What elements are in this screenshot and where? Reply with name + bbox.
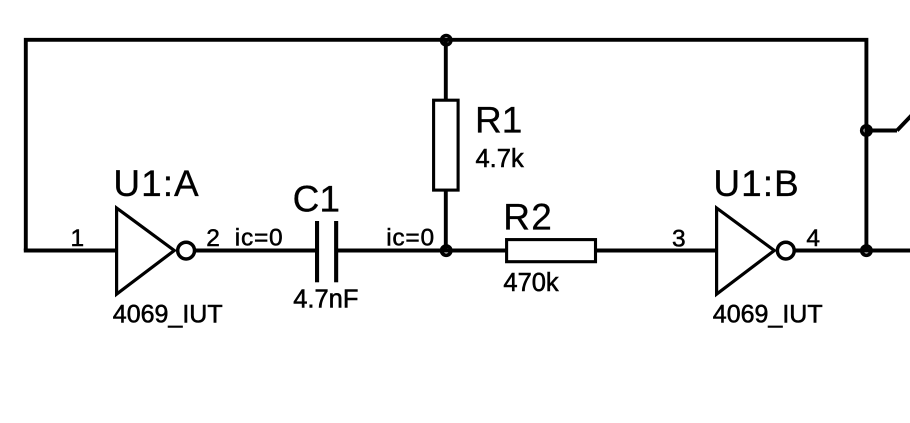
svg-text:C1: C1	[293, 179, 340, 220]
svg-text:2: 2	[206, 225, 220, 252]
svg-text:3: 3	[672, 225, 686, 252]
svg-text:R1: R1	[475, 99, 522, 140]
svg-text:U1:A: U1:A	[113, 163, 199, 204]
svg-text:470k: 470k	[503, 269, 559, 297]
svg-text:ic=0: ic=0	[386, 225, 435, 252]
svg-text:R2: R2	[503, 197, 553, 238]
svg-text:4: 4	[806, 225, 820, 252]
svg-text:4069_IUT: 4069_IUT	[113, 300, 223, 328]
svg-text:4.7k: 4.7k	[476, 145, 524, 173]
svg-text:U1:B: U1:B	[713, 163, 799, 204]
svg-text:4069_IUT: 4069_IUT	[713, 300, 823, 328]
svg-text:ic=0: ic=0	[235, 225, 284, 252]
svg-text:4.7nF: 4.7nF	[293, 285, 358, 313]
svg-text:1: 1	[71, 225, 85, 252]
